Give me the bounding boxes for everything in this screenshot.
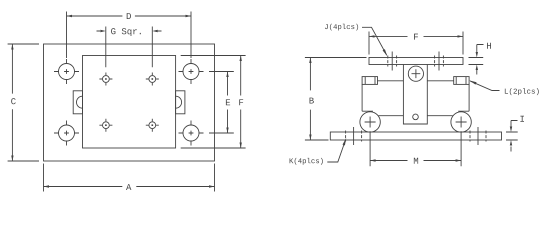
column lower small hole [413,114,419,120]
column top screw circle [408,66,423,81]
right roller [451,112,471,132]
dimension H extension lines [469,58,484,65]
dimension M label [414,158,418,164]
K hole right hidden lines [470,131,486,142]
dimension C line [11,44,13,161]
base plate outline [44,44,215,161]
right adjusting screw [454,77,469,85]
dimension E label [226,99,230,105]
dimension B label [310,98,314,104]
dimension C extension lines [8,44,39,161]
leader J line [362,27,387,56]
hole bottom-right [179,121,204,146]
dimension A line [44,185,215,187]
small hole top-left [99,73,112,86]
left block outer edge [361,84,363,111]
dimension F line (right view) [369,35,463,37]
dimension D label [127,13,131,19]
dimension I extension lines [506,132,518,140]
left adjusting screw [362,77,377,85]
leader K line [327,138,346,162]
top mounting plate [369,58,463,65]
J hole right hidden lines [435,56,444,67]
carriage block outline [83,56,176,149]
hole bottom-left [54,121,79,146]
left roller [360,112,380,132]
left ear semicircle [77,96,83,108]
K hole left centerline [353,127,355,145]
small hole top-right [146,73,159,86]
right block top edge [427,80,453,82]
left block top edge [378,80,404,82]
right block bottom edge [458,110,469,112]
dimension B line [309,58,311,141]
dimension A label [126,184,131,190]
dimension I label [520,116,524,122]
right ear semicircle [176,96,182,108]
dimension F line (left view) [240,56,242,149]
left ear tab [73,91,82,114]
dimension A extension lines [44,164,215,192]
J hole left centerline [391,52,393,71]
small hole bottom-left [99,119,112,132]
K hole right centerline [477,127,479,145]
dimension F label (right view) [414,34,418,40]
J hole left hidden lines [388,56,397,67]
dimension C label [11,98,16,104]
dimension F extension lines (left view) [181,56,246,149]
hole top-left [54,59,79,84]
leader K label [290,158,323,165]
dimension H arrows [476,45,484,75]
hole top-right [179,59,204,84]
small hole bottom-right [146,119,159,132]
left inner plate bottom edge [379,115,404,117]
right inner plate bottom edge [427,115,452,117]
K hole left hidden lines [346,131,362,142]
right ear tab [176,91,185,114]
center column [403,65,427,125]
dimension F extension lines (right view) [369,32,463,55]
dimension G extension lines [106,27,153,68]
right block outer edge [468,84,470,111]
leader L label [505,88,539,95]
dimension E extension lines [209,72,234,134]
dimension E line [226,72,228,134]
dimension M extension lines [370,131,461,166]
dimension I arrows [510,121,518,152]
J hole right centerline [438,52,440,71]
dimension M line [370,159,461,161]
rail base plate [330,132,501,140]
dimension G arrows [97,30,162,32]
dimension F label (left view) [239,99,243,105]
dimension D extension lines [67,12,192,59]
dimension H label [487,43,491,49]
leader J label [325,24,358,31]
dimension B extension lines [305,58,367,141]
left block bottom edge [362,110,373,112]
leader L line [469,80,499,90]
dimension D line [67,15,192,17]
dimension G label [111,28,141,36]
